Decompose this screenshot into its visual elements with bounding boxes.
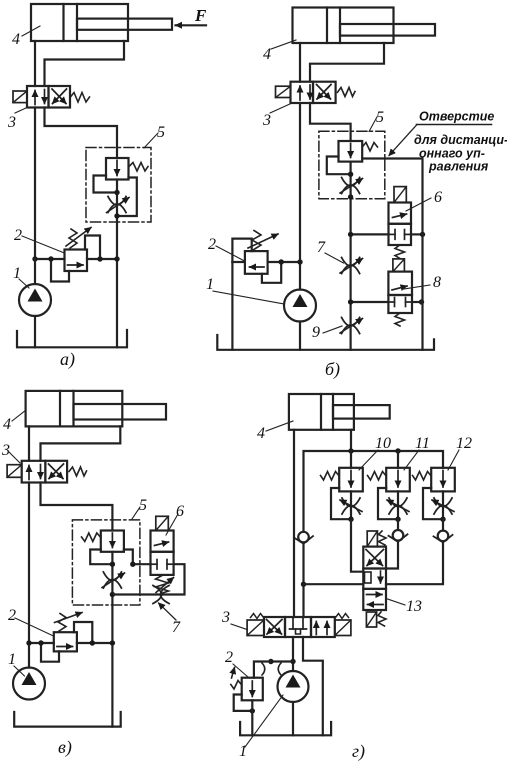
check valve 12: [434, 531, 453, 543]
cylinder 4 rod: [74, 404, 167, 420]
node: [110, 592, 115, 597]
node: [268, 659, 273, 664]
throttle arrow: [340, 179, 363, 194]
pump 1: [278, 671, 309, 702]
valve 3 solenoid: [276, 86, 291, 97]
pump 1: [19, 284, 51, 316]
valve 8 solenoid: [393, 259, 405, 272]
svg-text:6: 6: [176, 503, 184, 520]
reducing valve body: [101, 531, 124, 552]
wire T port to tank: [303, 637, 323, 735]
valve 13 bottom spring: [378, 612, 386, 626]
node: [395, 448, 400, 453]
wire valve 3 to box 5: [45, 108, 118, 159]
valve 3 down arrow: [44, 90, 46, 104]
reducing valve 12 spring: [413, 472, 432, 481]
tank: [240, 722, 331, 735]
valve 3 body: [22, 461, 46, 483]
leader 4: [271, 40, 296, 49]
valve 3 up arrows: [315, 622, 317, 635]
check valve left: [294, 532, 313, 544]
leader 2: [22, 236, 65, 253]
node: [348, 299, 353, 304]
tank: [17, 330, 127, 347]
valve 7 adjust arrow: [156, 578, 174, 593]
branch 10 riser: [350, 451, 352, 468]
node: [130, 562, 135, 567]
reducing valve body: [106, 158, 129, 180]
reducing valve 11 pilot loop: [378, 488, 395, 519]
wire pump rail: [271, 660, 293, 662]
wire cylinder left port to valve 3: [34, 41, 36, 86]
cylinder 4 body: [31, 4, 128, 41]
throttle 12 arrow: [432, 500, 454, 512]
svg-text:9: 9: [312, 324, 320, 341]
svg-text:2: 2: [225, 649, 233, 666]
svg-text:2: 2: [14, 227, 22, 244]
svg-text:10: 10: [375, 435, 391, 452]
valve 6 solenoid: [394, 187, 406, 203]
valve 3 crossed arrows: [317, 85, 331, 100]
wire rail to valve 13: [304, 583, 364, 585]
node: [301, 582, 306, 587]
valve 13 bottom solenoid: [366, 612, 376, 627]
node: [26, 640, 31, 645]
relief valve 2 pilot loop: [234, 695, 253, 711]
valve 3 right solenoid: [335, 620, 351, 636]
cylinder 4 piston: [62, 4, 64, 41]
node: [110, 640, 115, 645]
wire relief outlet: [77, 642, 113, 644]
leader 6: [166, 514, 178, 535]
throttle: [108, 197, 126, 213]
svg-text:в): в): [58, 737, 72, 758]
reducing valve 11 body: [386, 468, 410, 492]
cylinder 4 body: [26, 391, 123, 427]
leader 9: [323, 326, 342, 333]
node: [348, 194, 353, 199]
reducing valve spring: [82, 533, 101, 542]
wire valve 8 right: [412, 301, 422, 303]
valve 8 arrow: [392, 286, 407, 290]
cylinder 4 rod: [77, 19, 172, 30]
underline: [417, 124, 492, 126]
relief valve 2 spring: [58, 614, 66, 632]
node: [38, 640, 43, 645]
relief valve 2 outlet loop: [85, 236, 100, 260]
wire branch 12 to check valve: [442, 519, 444, 530]
wire valve 6 outlet loop: [114, 564, 185, 594]
reducing valve 12 pilot loop: [423, 488, 440, 519]
wire valve 3 to box 5: [41, 483, 113, 531]
relief valve 2 spring: [69, 229, 77, 248]
wire pump rail left: [35, 258, 65, 260]
throttle 11 arrow: [387, 500, 409, 512]
reducing valve spring: [362, 143, 377, 152]
node: [419, 299, 424, 304]
wire pump suction: [292, 702, 294, 735]
wire cylinder left port: [28, 426, 30, 460]
svg-text:1: 1: [8, 651, 16, 668]
wire branch 10: [350, 491, 352, 519]
wire cylinder right port jog: [41, 426, 121, 460]
valve 3 solenoid: [13, 91, 27, 103]
pump 1: [13, 668, 45, 700]
valve 8 body: [388, 272, 412, 295]
valve 13 top solenoid: [367, 531, 377, 547]
reducing valve arrow: [116, 161, 118, 176]
relief outlet loop: [74, 622, 92, 643]
relief valve 2 pilot loop: [51, 259, 69, 282]
valve 3 spring: [69, 467, 87, 476]
wire main through box 5 to tank: [116, 180, 118, 348]
reducing valve body: [339, 141, 363, 162]
node: [395, 517, 400, 522]
leader 10: [359, 450, 378, 470]
node: [97, 256, 102, 261]
throttle 9 arrow: [340, 319, 363, 334]
relief valve 2 body: [54, 632, 77, 651]
leader 5: [144, 133, 158, 148]
leader 7 arrow: [159, 603, 177, 620]
leader 5: [132, 507, 140, 519]
valve 3 body: [27, 86, 49, 108]
force F arrow: [176, 24, 207, 26]
wire valve 8 left: [351, 301, 389, 303]
reducing valve 10 pilot loop: [331, 488, 348, 519]
valve 13 body: [363, 547, 386, 569]
svg-text:7: 7: [172, 619, 181, 636]
svg-text:8: 8: [433, 274, 441, 291]
wire reducing valve to valve 6: [124, 550, 151, 565]
valve 13 down arrow: [380, 571, 382, 583]
cylinder 4 piston: [320, 394, 322, 430]
throttle: [103, 572, 121, 588]
wire pump suction: [299, 322, 301, 350]
valve 3 crossed arrows: [267, 620, 282, 635]
relief valve 2 spring: [252, 231, 261, 251]
valve 6 arrow: [393, 214, 407, 218]
reducing valve 12 body: [431, 468, 455, 492]
wire valve 3 to pump: [34, 108, 36, 260]
valve 13 crossed arrows: [366, 550, 383, 566]
wire valve 3 to box 5: [310, 103, 351, 141]
leader 1: [19, 279, 29, 288]
leader 3: [270, 104, 291, 114]
relief valve 2 body: [242, 678, 263, 701]
valve 3 solenoid: [7, 465, 22, 478]
valve 8 blocked ports: [388, 301, 394, 303]
svg-text:Отверстие: Отверстие: [419, 110, 494, 124]
wire pump to rail: [34, 259, 36, 284]
node: [440, 517, 445, 522]
relief valve 2 body: [245, 251, 268, 274]
wire pump rail: [29, 642, 54, 644]
branch 11 riser: [397, 451, 399, 468]
leader 4: [22, 26, 40, 36]
tank: [14, 712, 121, 727]
node: [32, 256, 37, 261]
wire relief outlet: [87, 258, 117, 260]
svg-text:3: 3: [221, 609, 230, 626]
node: [290, 659, 295, 664]
relief valve 2 body: [65, 250, 88, 272]
valve 8 spring: [395, 313, 405, 326]
valve 13 blocked port: [365, 572, 372, 583]
throttle arrow: [102, 573, 125, 588]
svg-text:2: 2: [8, 607, 16, 624]
pump 1: [284, 290, 316, 322]
node: [279, 259, 284, 264]
leader 3: [15, 108, 27, 114]
cylinder 4 rod: [340, 24, 435, 36]
valve 6 body: [151, 531, 174, 552]
valve 13 flow arrows: [367, 594, 383, 596]
reducing valve 12 arrow: [442, 471, 444, 488]
node: [114, 256, 119, 261]
throttle in box 5: [342, 178, 360, 194]
relief pilot loop: [41, 643, 59, 662]
svg-text:F: F: [194, 6, 207, 25]
wire branch 10 to valve 13: [351, 519, 363, 572]
wire P port to pump: [292, 637, 294, 671]
svg-text:12: 12: [456, 435, 472, 452]
valve 6 body: [389, 203, 412, 224]
node: [297, 259, 302, 264]
svg-text:13: 13: [406, 598, 422, 615]
valve 3 crossed arrows: [49, 464, 64, 479]
leader 13: [388, 599, 406, 605]
throttle 9: [342, 318, 360, 334]
valve 6 arrow: [155, 542, 169, 546]
wire left column to valve 3: [302, 543, 304, 617]
valve 3 up arrow: [299, 86, 301, 100]
leader 5: [369, 117, 377, 132]
enclosure 5 dash-dot: [86, 148, 151, 223]
relief outlet loop: [262, 262, 281, 283]
svg-text:равления: равления: [428, 160, 489, 174]
wire cylinder right port jog: [310, 43, 384, 82]
reducing valve arrow: [350, 144, 352, 158]
enclosure 5 dash-dot: [72, 520, 139, 605]
reducing valve pilot loop: [327, 157, 347, 175]
wire pump suction: [34, 316, 36, 347]
cylinder 4 body: [293, 8, 394, 44]
relief valve 2 arrow: [250, 266, 265, 268]
valve 6 solenoid: [156, 516, 169, 530]
valve 6 spring: [395, 245, 405, 259]
node: [250, 708, 255, 713]
svg-text:3: 3: [262, 112, 271, 129]
wire main column box 5 to tank: [111, 552, 113, 727]
leader 7: [325, 253, 344, 263]
reducing valve 10 body: [339, 468, 363, 492]
svg-text:б): б): [325, 359, 340, 380]
wire branch 11 to check valve: [397, 519, 399, 529]
throttle 10 arrow: [340, 500, 362, 512]
throttle 7: [153, 586, 169, 604]
valve 3 closed centre: [292, 617, 294, 629]
reducing valve pilot loop: [90, 550, 109, 565]
leader 8: [404, 285, 430, 289]
wire check valve 12 to valve 13: [386, 542, 443, 584]
valve 6 blocked ports: [389, 233, 396, 235]
svg-text:для дистанци-: для дистанци-: [414, 133, 507, 147]
wire cylinder left port: [293, 430, 295, 617]
relief valve 2 top loop: [254, 662, 271, 678]
note arrow: [389, 125, 417, 156]
throttle arrow: [107, 198, 130, 213]
leader 2: [233, 664, 248, 677]
svg-text:г): г): [352, 741, 365, 762]
wire main column to tank: [350, 162, 352, 350]
wire cylinder left port: [299, 43, 301, 82]
leader 4: [266, 421, 293, 431]
valve 3 up arrow: [28, 466, 30, 480]
reducing valve 11 arrow: [397, 471, 399, 488]
node: [348, 448, 353, 453]
svg-text:5: 5: [139, 497, 147, 514]
valve 13 top spring: [379, 531, 387, 545]
wire cylinder right port jog to valve 3: [45, 41, 125, 86]
reducing valve 10 spring: [321, 472, 340, 481]
valve 3 spring: [70, 93, 90, 103]
relief valve 2 arrow: [251, 681, 253, 697]
node: [114, 190, 119, 195]
svg-text:а): а): [60, 349, 75, 370]
valve 7 spring: [156, 576, 169, 594]
svg-text:2: 2: [208, 236, 216, 253]
leader 2: [15, 618, 54, 636]
cylinder 4 piston: [326, 8, 328, 44]
relief valve 2 adjust arrow: [55, 613, 83, 623]
node: [114, 213, 119, 218]
svg-text:оннаго уп-: оннаго уп-: [419, 147, 485, 161]
leader 4: [12, 410, 26, 421]
line break arcs: [262, 663, 265, 675]
valve 3 right spring: [336, 614, 349, 619]
wire check valve 11 to valve 13: [386, 541, 398, 568]
valve 3 left solenoid: [247, 620, 264, 636]
wire top rail: [304, 451, 444, 531]
valve 3 left spring: [251, 614, 264, 619]
leader 3: [231, 624, 247, 630]
cylinder 4 piston: [59, 391, 61, 427]
leader 1: [14, 666, 25, 676]
svg-text:4: 4: [257, 425, 265, 442]
cylinder 4 rod: [333, 405, 390, 419]
valve 3 down arrow: [309, 85, 311, 99]
remote control wire: [362, 159, 422, 235]
node: [348, 517, 353, 522]
node: [420, 232, 425, 237]
check valve 11: [389, 530, 408, 542]
wire pump column: [28, 483, 30, 668]
reducing valve outlet loop: [120, 178, 137, 217]
valve 3 crossed arrows: [52, 89, 66, 104]
tank: [217, 335, 434, 350]
wire right return line: [421, 234, 423, 349]
wire branch 12: [442, 491, 444, 519]
cylinder 4 body: [289, 394, 354, 430]
leader 6: [406, 198, 431, 211]
relief valve 2 spring: [231, 681, 242, 690]
valve 6 blocked ports: [151, 563, 158, 565]
relief valve 2 arrow: [57, 646, 73, 648]
reducing valve pilot loop: [94, 176, 115, 193]
relief valve 2 adjust arrow: [248, 234, 278, 248]
leader 1: [213, 291, 284, 304]
throttle 11: [389, 498, 407, 514]
enclosure 5 dash-dot: [319, 131, 385, 199]
leader 3: [9, 452, 20, 463]
throttle 7 arrow: [340, 259, 363, 274]
wire relief drain: [251, 700, 253, 735]
valve 3 spring: [338, 88, 356, 97]
node: [348, 172, 353, 177]
wire valve 6 right: [411, 233, 423, 235]
svg-text:4: 4: [3, 416, 11, 433]
wire branch 11: [397, 491, 399, 519]
svg-text:11: 11: [415, 435, 430, 452]
node: [110, 562, 115, 567]
reducing valve 10 arrow: [350, 471, 352, 488]
leader 12: [448, 450, 459, 470]
reducing valve 11 spring: [368, 472, 387, 481]
remote control note text: [414, 110, 507, 174]
node: [90, 640, 95, 645]
relief pilot loop: [232, 239, 251, 262]
svg-text:3: 3: [1, 442, 10, 459]
wire relief drain: [231, 262, 233, 350]
leader 2: [216, 246, 245, 261]
relief valve 2 adjust arrow: [232, 668, 235, 679]
svg-text:4: 4: [12, 31, 20, 48]
valve 3 body: [291, 82, 314, 103]
wire relief right: [268, 261, 300, 263]
node: [348, 232, 353, 237]
valve 3 up arrow: [34, 91, 36, 105]
relief valve 2 adjust arrow: [66, 228, 91, 247]
throttle 10: [342, 498, 360, 514]
valve 3 body: [264, 617, 285, 637]
wire valve 6 left: [351, 233, 389, 235]
valve 3 down arrow: [40, 465, 42, 479]
node: [48, 256, 53, 261]
relief valve 2 arrow: [68, 264, 84, 266]
svg-text:4: 4: [263, 46, 271, 63]
wire cylinder right port: [350, 430, 352, 451]
svg-text:7: 7: [317, 239, 326, 256]
leader 11: [404, 450, 419, 470]
throttle 7: [342, 258, 360, 274]
svg-text:6: 6: [434, 189, 442, 206]
wire relief to tank line: [232, 261, 245, 263]
reducing valve spring: [129, 163, 149, 172]
leader 1: [245, 695, 283, 747]
reducing valve arrow: [111, 533, 113, 548]
svg-text:3: 3: [7, 114, 16, 131]
throttle 12: [434, 498, 452, 514]
wire pump column: [299, 103, 301, 290]
